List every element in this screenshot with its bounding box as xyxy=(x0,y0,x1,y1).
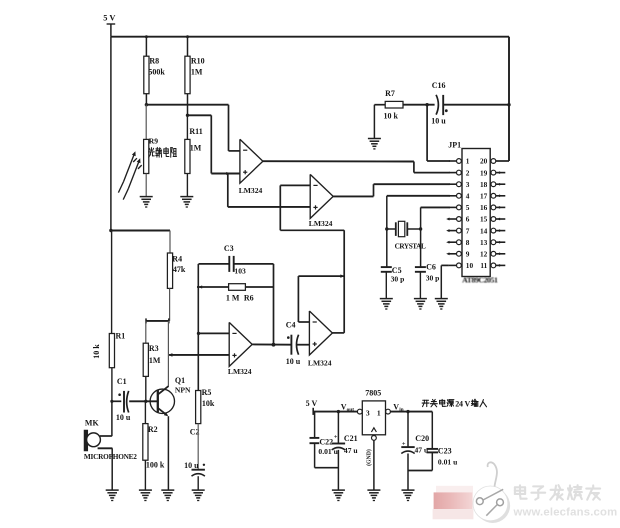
svg-text:10 u: 10 u xyxy=(431,117,446,126)
svg-text:10 u: 10 u xyxy=(286,357,301,366)
svg-text:C21: C21 xyxy=(344,434,358,443)
svg-text:LM324: LM324 xyxy=(309,219,333,228)
svg-text:12: 12 xyxy=(480,250,488,259)
svg-text:9: 9 xyxy=(466,250,470,259)
svg-text:1: 1 xyxy=(466,157,470,166)
svg-text:JP1: JP1 xyxy=(448,140,461,149)
svg-text:20: 20 xyxy=(480,157,488,166)
svg-text:NPN: NPN xyxy=(175,385,191,394)
svg-text:7: 7 xyxy=(466,226,470,235)
svg-text:47 u: 47 u xyxy=(344,446,358,455)
svg-text:4: 4 xyxy=(466,192,470,201)
svg-text:11: 11 xyxy=(480,261,487,270)
svg-text:R2: R2 xyxy=(148,425,158,434)
svg-text:3: 3 xyxy=(366,409,370,418)
svg-text:LM324: LM324 xyxy=(228,367,252,376)
svg-text:C3: C3 xyxy=(224,244,234,253)
svg-text:3: 3 xyxy=(466,180,470,189)
svg-text:18: 18 xyxy=(480,180,488,189)
svg-text:14: 14 xyxy=(480,226,488,235)
svg-text:8: 8 xyxy=(466,238,470,247)
svg-text:C20: C20 xyxy=(415,434,429,443)
svg-text:R5: R5 xyxy=(202,388,212,397)
svg-text:R3: R3 xyxy=(149,344,159,353)
svg-text:15: 15 xyxy=(480,215,488,224)
svg-text:13: 13 xyxy=(480,238,488,247)
svg-text:www.elecfans.com: www.elecfans.com xyxy=(513,506,618,518)
svg-text:R10: R10 xyxy=(191,57,205,66)
svg-text:47k: 47k xyxy=(173,265,186,274)
svg-text:500k: 500k xyxy=(148,68,165,77)
svg-text:10 k: 10 k xyxy=(384,111,399,120)
svg-text:1M: 1M xyxy=(149,356,161,365)
svg-text:LM324: LM324 xyxy=(239,186,263,195)
svg-text:R1: R1 xyxy=(116,332,126,341)
svg-text:30 p: 30 p xyxy=(391,274,405,283)
svg-text:17: 17 xyxy=(480,192,488,201)
svg-text:(GND): (GND) xyxy=(365,449,372,466)
svg-text:5: 5 xyxy=(466,203,470,212)
svg-text:C23: C23 xyxy=(438,446,452,455)
svg-text:10k: 10k xyxy=(202,399,215,408)
svg-text:R9: R9 xyxy=(149,136,158,145)
svg-text:+: + xyxy=(402,440,406,447)
svg-text:30 p: 30 p xyxy=(426,274,440,283)
svg-text:10 u: 10 u xyxy=(184,461,199,470)
svg-text:MK: MK xyxy=(85,418,100,427)
svg-text:+: + xyxy=(334,433,338,440)
svg-text:R8: R8 xyxy=(149,57,159,66)
svg-text:10 k: 10 k xyxy=(92,344,101,359)
svg-text:6: 6 xyxy=(466,215,470,224)
svg-text:R4: R4 xyxy=(172,255,182,264)
svg-text:10: 10 xyxy=(466,261,474,270)
svg-text:5 V: 5 V xyxy=(306,399,318,408)
svg-text:R7: R7 xyxy=(385,89,395,98)
svg-text:10 u: 10 u xyxy=(116,413,131,422)
svg-text:103: 103 xyxy=(234,267,246,276)
svg-text:2: 2 xyxy=(466,168,470,177)
svg-text:1: 1 xyxy=(377,409,381,418)
svg-text:CRYSTAL: CRYSTAL xyxy=(395,242,426,250)
svg-text:100 k: 100 k xyxy=(146,461,165,470)
svg-text:R11: R11 xyxy=(189,127,202,136)
svg-text:C16: C16 xyxy=(432,81,446,90)
svg-text:0.01 u: 0.01 u xyxy=(438,458,458,467)
svg-text:1 M: 1 M xyxy=(226,293,240,302)
svg-text:24 V: 24 V xyxy=(455,400,470,409)
svg-text:R6: R6 xyxy=(244,293,254,302)
svg-text:7805: 7805 xyxy=(365,389,381,398)
svg-text:out: out xyxy=(347,407,355,413)
svg-text:1M: 1M xyxy=(191,68,203,77)
svg-text:Q1: Q1 xyxy=(175,376,185,385)
svg-text:16: 16 xyxy=(480,203,488,212)
svg-text:AT89C2051: AT89C2051 xyxy=(462,276,498,285)
svg-text:1M: 1M xyxy=(190,143,202,152)
svg-text:C4: C4 xyxy=(286,320,296,329)
svg-text:C1: C1 xyxy=(117,377,127,386)
svg-text:MICROPHONE2: MICROPHONE2 xyxy=(84,452,137,461)
svg-text:C6: C6 xyxy=(426,262,436,271)
svg-text:LM324: LM324 xyxy=(308,358,332,367)
svg-text:5 V: 5 V xyxy=(103,14,115,23)
svg-text:C22: C22 xyxy=(319,437,333,446)
svg-text:19: 19 xyxy=(480,168,488,177)
